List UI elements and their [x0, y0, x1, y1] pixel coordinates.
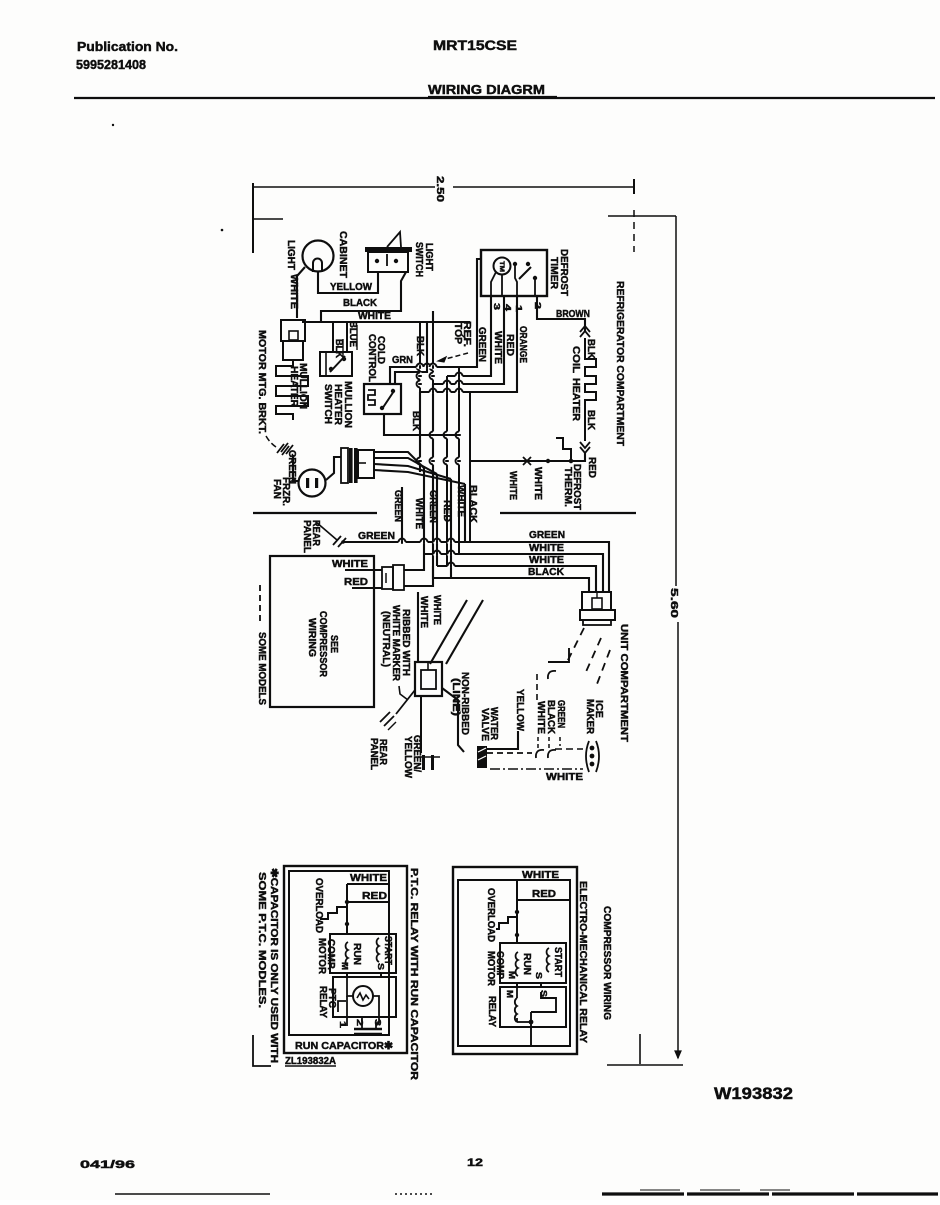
- wire blk to cold control top: [395, 322, 427, 384]
- dashed wire valve to ice maker: [487, 752, 532, 754]
- wire white ptc: [347, 883, 389, 885]
- wire cabinet light to mullion connector: [297, 267, 305, 318]
- svg-text:WHITE: WHITE: [532, 467, 543, 500]
- svg-text:SOME P.T.C. MODLES.: SOME P.T.C. MODLES.: [256, 872, 267, 1008]
- wire connector to bus red: [404, 566, 433, 586]
- bus wire vertical 2: [432, 311, 434, 384]
- plug prongs: [422, 755, 425, 770]
- svg-text:BLACK: BLACK: [343, 298, 378, 309]
- wire relay main vertical: [516, 880, 518, 943]
- relay detail inner box: [458, 880, 570, 1046]
- border bottom-right corner: [607, 1064, 683, 1066]
- leader ribbed with: [399, 686, 408, 700]
- ptc detail inner box: [289, 871, 389, 1035]
- svg-text:WIRING: WIRING: [306, 618, 317, 657]
- wire line diagonal to plug 1: [430, 600, 467, 664]
- diagram border top-left corner: [252, 183, 254, 253]
- comp motor relay box (relay): [500, 943, 566, 983]
- wire timer orange: [420, 296, 517, 392]
- svg-text:MRT15CSE: MRT15CSE: [433, 38, 517, 53]
- svg-text:WHITE: WHITE: [529, 543, 564, 554]
- svg-text:WHITE: WHITE: [522, 870, 559, 881]
- dashed ice maker harness 3: [597, 650, 610, 684]
- svg-text:RED: RED: [344, 577, 368, 588]
- connector hooks: [536, 750, 544, 758]
- svg-text:GREEN: GREEN: [529, 530, 565, 541]
- svg-text:12: 12: [467, 1157, 483, 1169]
- wire red compressor: [352, 587, 382, 589]
- note bracket: [253, 1035, 271, 1066]
- svg-text:GREEN: GREEN: [427, 490, 438, 523]
- svg-text:RED: RED: [441, 500, 452, 522]
- svg-text:RUN CAPACITOR✱: RUN CAPACITOR✱: [295, 1040, 393, 1052]
- dashed wire to pin bracket: [555, 748, 583, 750]
- svg-text:SWITCH: SWITCH: [413, 242, 424, 277]
- svg-text:RED: RED: [504, 334, 515, 356]
- svg-text:RELAY: RELAY: [486, 996, 497, 1027]
- relay coil box: [500, 987, 566, 1027]
- coil heater element: [585, 338, 596, 441]
- mullion heater connector: [281, 320, 305, 341]
- svg-text:2.50: 2.50: [434, 176, 445, 203]
- dash-dot wire white ice maker: [490, 768, 583, 770]
- wire timer white: [447, 296, 491, 376]
- svg-text:HEATER: HEATER: [570, 378, 581, 422]
- svg-text:YELLOW: YELLOW: [402, 736, 413, 779]
- start winding (relay): [547, 948, 549, 972]
- defrost timer motor TM: [494, 258, 511, 275]
- wire timer green: [459, 259, 481, 367]
- svg-text:SEE: SEE: [328, 635, 339, 653]
- svg-text:5995281408: 5995281408: [76, 57, 146, 72]
- svg-text:5.60: 5.60: [668, 588, 679, 619]
- svg-text:START: START: [552, 947, 563, 977]
- svg-text:1: 1: [514, 305, 524, 312]
- svg-text:TM: TM: [498, 261, 505, 272]
- run winding (relay): [516, 952, 518, 976]
- splice arrow bottom (coil heater): [580, 442, 590, 453]
- wire cold control bottom: [384, 414, 459, 435]
- wire white bundle 2: [437, 566, 596, 592]
- svg-text:WHITE: WHITE: [455, 485, 466, 517]
- svg-text:✱CAPACITOR IS ONLY USED WITH: ✱CAPACITOR IS ONLY USED WITH: [268, 868, 279, 1063]
- splice arrow top (coil heater): [580, 326, 590, 337]
- svg-text:WIRING DIAGRM: WIRING DIAGRM: [428, 82, 545, 97]
- svg-text:Publication No.: Publication No.: [77, 39, 178, 54]
- svg-text:WHITE: WHITE: [358, 311, 391, 322]
- bus wire vertical 5: [469, 392, 471, 542]
- svg-text:GREEN: GREEN: [555, 700, 566, 728]
- svg-text:COMPRESSOR: COMPRESSOR: [317, 611, 328, 678]
- ground freezer fan: [281, 443, 288, 452]
- dashed ice maker harness 2: [585, 638, 601, 674]
- svg-text:MAKER: MAKER: [584, 699, 595, 735]
- svg-text:BLK: BLK: [585, 410, 596, 431]
- ground green yellow: [396, 690, 415, 714]
- svg-text:WHITE: WHITE: [492, 331, 503, 364]
- bottom scan bar left: [115, 1193, 270, 1195]
- speck 2: [221, 229, 224, 232]
- compressor connector: [382, 567, 393, 589]
- svg-text:YELLOW: YELLOW: [514, 689, 525, 732]
- bus wire black vertical: [433, 384, 451, 578]
- svg-text:SOME MODELS: SOME MODELS: [256, 632, 267, 705]
- wire black switch to bus: [321, 272, 406, 322]
- wire line diagonal to plug 2: [446, 600, 483, 664]
- svg-text:(NEUTRAL): (NEUTRAL): [380, 611, 391, 667]
- wire blue to mullion switch: [346, 322, 348, 352]
- svg-text:RUN: RUN: [351, 943, 362, 965]
- compartment divider line left: [253, 512, 377, 514]
- splice X (defrost therm wire): [523, 457, 531, 465]
- svg-text:THERM.: THERM.: [562, 467, 573, 507]
- wire connector to bus white: [404, 554, 424, 570]
- wire timer red: [433, 296, 504, 384]
- svg-text:ELECTRO-MECHANICAL RELAY: ELECTRO-MECHANICAL RELAY: [577, 881, 588, 1043]
- svg-text:BLK: BLK: [585, 339, 596, 360]
- dashed some models line: [259, 585, 261, 625]
- svg-text:3: 3: [492, 303, 502, 310]
- comp motor relay box (ptc): [330, 934, 396, 973]
- svg-text:WHITE: WHITE: [350, 873, 387, 884]
- run capacitor: [354, 1028, 382, 1030]
- svg-text:WHITE: WHITE: [418, 596, 429, 628]
- svg-text:RELAY: RELAY: [317, 986, 328, 1018]
- svg-text:S: S: [534, 972, 544, 979]
- svg-text:OVERLOAD: OVERLOAD: [313, 878, 324, 933]
- light switch: [365, 247, 412, 252]
- svg-text:CABINET: CABINET: [337, 231, 348, 278]
- svg-text:2: 2: [355, 1019, 365, 1026]
- svg-text:S: S: [376, 963, 386, 970]
- svg-text:PANEL: PANEL: [368, 738, 379, 770]
- wire red relay box: [517, 899, 570, 901]
- svg-text:BLACK: BLACK: [467, 485, 478, 524]
- defrost timer contacts: [513, 262, 517, 266]
- overload protector (ptc): [320, 907, 347, 919]
- bottom scan bar right: [602, 1192, 938, 1195]
- svg-text:MOTOR MTG. BRKT.: MOTOR MTG. BRKT.: [256, 330, 267, 434]
- relay detail outer box: [453, 867, 577, 1054]
- wire black bundle: [451, 578, 589, 592]
- svg-text:RUN: RUN: [521, 953, 532, 975]
- cold control box: [364, 384, 401, 414]
- svg-text:OVERLOAD: OVERLOAD: [485, 888, 496, 942]
- compartment divider line right: [500, 512, 636, 514]
- svg-text:GRN: GRN: [392, 355, 413, 366]
- svg-text:WHITE: WHITE: [332, 559, 368, 570]
- svg-text:LIGHT: LIGHT: [285, 240, 296, 270]
- svg-text:GREEN: GREEN: [392, 490, 403, 522]
- dimension line 5.60 vertical lower: [677, 622, 679, 1058]
- wire fan to connector: [326, 457, 341, 480]
- svg-text:M: M: [507, 971, 517, 979]
- svg-text:RED: RED: [586, 457, 597, 478]
- wire red vertical mid: [450, 479, 452, 578]
- svg-text:START: START: [382, 936, 393, 965]
- svg-text:GREEN: GREEN: [358, 530, 395, 542]
- svg-text:COIL: COIL: [570, 346, 581, 373]
- svg-text:BLACK: BLACK: [528, 567, 565, 578]
- svg-text:MOTOR: MOTOR: [316, 938, 327, 975]
- ice maker connector: [582, 592, 611, 610]
- svg-text:M: M: [505, 990, 515, 998]
- wire red ptc: [347, 901, 389, 903]
- start winding (ptc): [377, 938, 379, 962]
- relay coil: [515, 998, 517, 1022]
- dashed leader ref top: [438, 353, 468, 361]
- svg-text:WHITE: WHITE: [546, 772, 583, 783]
- wire ptc main vertical: [346, 884, 348, 934]
- power cord plug: [415, 662, 442, 696]
- mullion heater switch: [320, 352, 352, 376]
- svg-text:TIMER: TIMER: [548, 257, 559, 290]
- wire white main horizontal: [302, 321, 470, 323]
- ground rear panel: [316, 522, 337, 540]
- wire white bundle 1: [424, 554, 603, 592]
- relay contact: [531, 992, 556, 1012]
- ptc detail outer box: [284, 866, 407, 1053]
- dashed ice maker harness 1: [566, 628, 584, 664]
- wire white compressor: [345, 569, 382, 571]
- wire green bundle: [344, 542, 609, 592]
- svg-text:BROWN: BROWN: [556, 309, 590, 320]
- water valve coil: [477, 746, 487, 768]
- svg-text:WHITE: WHITE: [535, 701, 546, 734]
- svg-text:GREEN: GREEN: [476, 327, 487, 362]
- svg-text:W193832: W193832: [714, 1085, 793, 1103]
- wire timer pin2 to brown: [537, 296, 585, 332]
- mullion heater element: [276, 360, 308, 420]
- svg-text:PANEL: PANEL: [301, 520, 312, 553]
- svg-text:WHITE: WHITE: [413, 498, 424, 529]
- freezer fan connector: [341, 448, 348, 483]
- bottom scan bar middle: [395, 1193, 432, 1195]
- svg-text:YELLOW: YELLOW: [330, 282, 373, 293]
- bus wire vertical 3: [446, 376, 448, 566]
- wire white vertical mid 2: [464, 484, 466, 542]
- svg-text:WHITE: WHITE: [507, 471, 518, 500]
- wire non-ribbed line: [442, 688, 464, 752]
- svg-text:REFRIGERATOR COMPARTMENT: REFRIGERATOR COMPARTMENT: [614, 281, 625, 446]
- svg-text:HEATER: HEATER: [288, 366, 299, 408]
- wire coil heater to defrost thermostat: [470, 452, 585, 461]
- defrost timer box: [481, 250, 547, 296]
- svg-text:BLACK: BLACK: [545, 700, 556, 735]
- defrost thermostat: [556, 438, 571, 461]
- power cord to prongs: [420, 696, 422, 753]
- svg-text:CONTROL: CONTROL: [366, 334, 377, 382]
- wire grn cold control to bus: [390, 367, 459, 384]
- bus wire vertical 1: [419, 322, 421, 392]
- border top-right tick: [633, 179, 635, 194]
- run winding (ptc): [346, 942, 348, 966]
- bus wire vertical 4: [458, 367, 460, 554]
- svg-text:WHITE: WHITE: [529, 555, 564, 566]
- wire blk to mullion switch: [332, 322, 334, 352]
- header rule: [74, 97, 935, 99]
- svg-text:041/96: 041/96: [80, 1159, 135, 1171]
- wire white vertical mid 1: [423, 468, 425, 554]
- wire neutral vertical to plug: [417, 592, 419, 662]
- wire yellow to water valve: [487, 731, 518, 749]
- svg-text:M: M: [340, 962, 350, 970]
- svg-text:MOTOR: MOTOR: [485, 951, 496, 987]
- ptc relay box: [333, 977, 396, 1017]
- wire fan to ground: [293, 455, 299, 481]
- ice maker pin bracket: [586, 741, 589, 772]
- svg-text:(LINE): (LINE): [450, 678, 461, 716]
- wire green vertical mid: [436, 474, 438, 566]
- svg-text:WHITE: WHITE: [431, 595, 442, 625]
- speck 1: [112, 124, 114, 126]
- dimension tick left: [253, 218, 283, 220]
- svg-text:P.T.C. RELAY WITH RUN CAPACITO: P.T.C. RELAY WITH RUN CAPACITOR: [408, 868, 419, 1081]
- dimension line 5.60 vertical upper: [675, 216, 677, 586]
- svg-text:VALVE: VALVE: [479, 708, 490, 741]
- ptc device: [353, 986, 373, 1006]
- compressor detail box: [270, 556, 374, 707]
- dashed ice maker wires: [537, 737, 539, 748]
- wire yellow light to switch: [318, 272, 378, 293]
- svg-text:ORANGE: ORANGE: [517, 326, 528, 363]
- freezer fan motor: [299, 470, 326, 497]
- svg-text:RED: RED: [532, 889, 556, 900]
- svg-text:RED: RED: [362, 891, 387, 902]
- wire green vertical (rear panel): [401, 487, 403, 542]
- dimension line right top: [608, 215, 676, 217]
- svg-text:FAN: FAN: [271, 479, 282, 499]
- overload protector (relay): [496, 917, 517, 929]
- svg-text:SWITCH: SWITCH: [322, 384, 333, 424]
- cabinet light lamp: [303, 241, 334, 272]
- fan connector fanout wires: [374, 452, 424, 468]
- ice maker stub wire: [548, 648, 569, 662]
- svg-text:COMPRESSOR WIRING: COMPRESSOR WIRING: [601, 906, 612, 1020]
- ground motor mounting bracket: [266, 436, 276, 447]
- svg-text:UNIT COMPARTMENT: UNIT COMPARTMENT: [618, 624, 629, 742]
- dashed stub vertical: [536, 674, 538, 700]
